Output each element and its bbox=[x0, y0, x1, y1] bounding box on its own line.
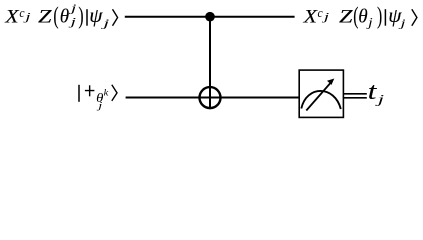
svg-text:c: c bbox=[19, 5, 24, 20]
svg-text:): ) bbox=[377, 3, 382, 30]
svg-text:θ: θ bbox=[358, 5, 368, 27]
svg-text:c: c bbox=[318, 5, 323, 20]
control dot bbox=[205, 12, 215, 22]
CNOT target X1 bbox=[200, 87, 221, 108]
meter needle bbox=[306, 82, 331, 111]
meter arc bbox=[301, 91, 341, 109]
wire: control vertical line bbox=[209, 17, 211, 110]
svg-text:X: X bbox=[302, 7, 317, 27]
svg-text:X: X bbox=[4, 7, 19, 27]
wire: top qubit wire bbox=[125, 16, 295, 18]
wire: bottom qubit wire bbox=[126, 97, 300, 99]
label: top-right X^{c_j} Z(theta_j)|psi_j> bbox=[302, 3, 416, 30]
svg-text:(: ( bbox=[53, 3, 58, 30]
svg-text:θ: θ bbox=[60, 5, 70, 27]
measurement box M1 bbox=[299, 70, 343, 117]
svg-text:Z: Z bbox=[38, 7, 52, 27]
svg-text:ψ: ψ bbox=[89, 6, 103, 27]
svg-text:Z: Z bbox=[339, 7, 353, 27]
label: top-left X^{c_j} Z(theta_j^j)|psi_j> bbox=[4, 3, 117, 30]
wire: classical double line bbox=[343, 93, 366, 95]
svg-text:): ) bbox=[78, 3, 83, 30]
label: bottom-left |+_{theta_j^k}> bbox=[79, 85, 117, 112]
